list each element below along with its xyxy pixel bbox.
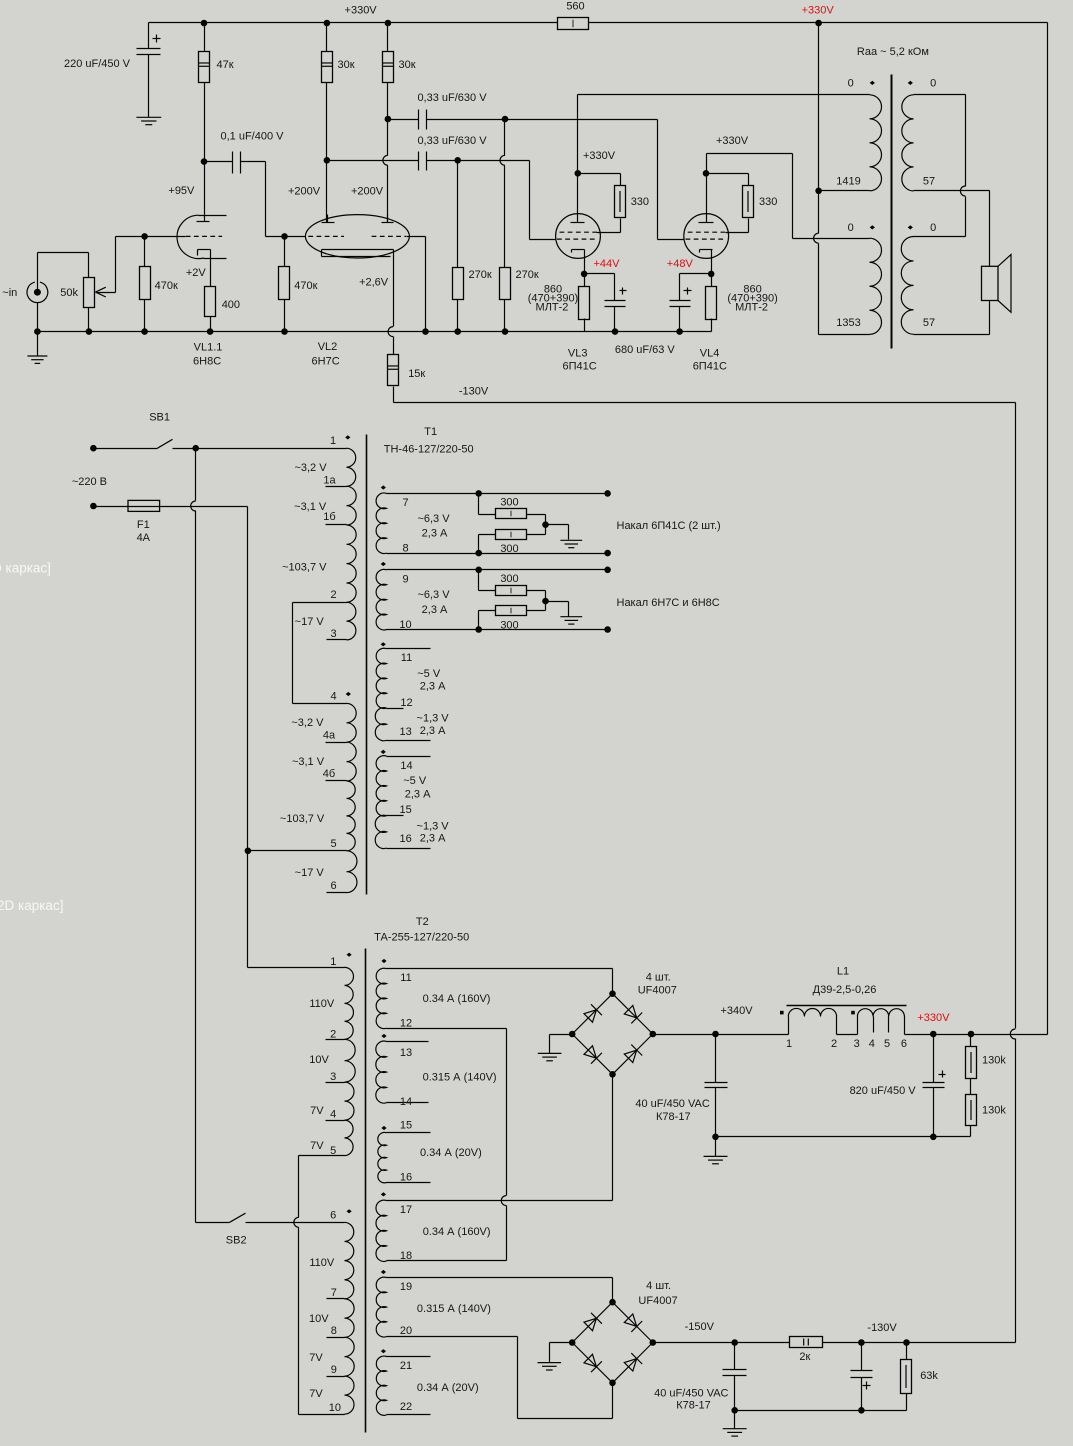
resistor 30k-1 body [322,52,333,83]
label L1 pin 3 [854,1038,860,1050]
svg-text:Т1: Т1 [424,426,437,438]
svg-text:15к: 15к [408,368,425,380]
label 0 (secondary lower) [930,222,936,234]
junction dot VL2 grid / 470k-2 [281,233,288,240]
wire bridge2 minus to ground [550,1343,573,1363]
label Накал 6Н7С и 6Н8С [617,597,720,609]
wire VL2 left anode to 0,33uF-2 [327,160,419,162]
VL3 cathode node dot [581,271,588,278]
label L1 [837,966,849,978]
label 1a [323,474,336,486]
wire PSU2 bottom bus [735,1410,907,1412]
label pin 13 [399,726,411,738]
label +330V after L1 (red) [917,1012,950,1024]
T2 phase dot pin19 [381,1270,386,1274]
svg-text:0.34 А (20V): 0.34 А (20V) [420,1147,482,1159]
wire VL4 anode to OT lower primary [707,154,870,239]
label T2 pin 20 [400,1325,412,1337]
label ~3,2 V (T1-1) [294,462,327,474]
T1 phase dot pin14 [381,750,386,754]
T2 phase dot pin6 [347,1209,352,1213]
label T2 pin 15 [400,1120,412,1132]
junction dot -130V node [858,1339,865,1346]
T1 winding 14-16 coil [375,756,386,849]
T2 lead 20 to bridge2 bottom [387,1337,613,1419]
VL2 grid (dashed) [308,235,406,237]
resistor 860-2 body [706,287,717,320]
ground symbol (220uF cap) [136,117,161,124]
label 220 uF/450 V [64,58,131,70]
svg-text:МЛТ-2: МЛТ-2 [735,302,768,314]
wire PSU1 bottom bus [716,1136,971,1138]
label T2 pin 13 [400,1047,412,1059]
label 2,3 A (13) [420,725,446,737]
svg-text:К78-17: К78-17 [676,1400,711,1412]
capacitor 680uF-1 plates [605,301,626,307]
VL1.1 cathode [198,250,211,287]
T2 lead 5 to lead 10 [294,1156,345,1415]
junction dots on ground bus [34,328,683,335]
svg-text:+2,6V: +2,6V [359,277,389,289]
label L1 pin 6 [901,1038,907,1050]
T1 winding 7-8 coil [376,493,386,554]
label T1 pin 3 [330,628,336,640]
label +48V (red) [667,258,694,270]
diode VD1 D4 (bottom-right edge) [624,1045,642,1063]
transformer T1 core [366,435,368,895]
label 300 upper 7-8 [500,497,518,509]
resistor 300 lower 7-8 [496,530,527,540]
bridge rectifier VD2 diamond [572,1302,653,1383]
svg-text:4 шт.: 4 шт. [646,1280,671,1292]
svg-text:17: 17 [400,1204,412,1216]
svg-text:820 uF/450 V: 820 uF/450 V [850,1085,917,1097]
label 470к (2) [294,280,317,292]
label 63k [920,1370,938,1382]
T1 lead 7-8a (top) [387,493,608,495]
svg-text:2: 2 [330,1029,336,1041]
label UF4007 (VD1) [638,985,677,997]
label pin 8 [402,543,408,555]
junction dot T1 pin5 feed [245,848,252,855]
T1 lead 1a [326,486,347,488]
svg-text:+200V: +200V [288,186,321,198]
wire 860-1 leads [584,274,586,332]
svg-text:560: 560 [566,1,584,13]
label +2,6V [359,277,389,289]
svg-text:VL4: VL4 [700,347,720,359]
label VL2 [318,341,338,353]
wire fuse line [94,506,248,508]
T1 lead 14 [387,756,431,758]
wire 0,33uF-2 to VL3 grid [427,161,556,240]
VL4 anode [699,154,714,223]
svg-text:7V: 7V [310,1140,324,1152]
svg-text:~3,2 V: ~3,2 V [294,462,327,474]
label 7V (T2-3) [309,1352,323,1364]
svg-text:0,33 uF/630 V: 0,33 uF/630 V [417,92,487,104]
ground symbol (PSU1) [704,1137,728,1164]
wire jack to pot top [38,253,89,291]
junction dot 300 mid 7-8 [542,521,549,528]
VL4 anode node dot [703,170,710,177]
label 6Н8С [193,355,221,367]
resistor 560 (top rail) [558,18,589,30]
svg-text:+330V: +330V [345,4,378,16]
wire +330V to OT center tap [818,23,820,191]
label pin 12 [400,697,412,709]
label T2 pin 8 [331,1325,337,1337]
svg-text:VL1.1: VL1.1 [194,342,223,354]
diode VD2 D2 (top-right edge) [624,1314,642,1332]
label К78-17 (1) [656,1111,691,1123]
label 2,3 A 9-10 [422,604,448,616]
junction dot 300 mid 9-10 [542,598,549,605]
VL3 cathode [572,250,585,274]
T1 lead 13 [387,740,431,742]
svg-text:ТА-255-127/220-50: ТА-255-127/220-50 [374,932,469,944]
svg-text:10: 10 [329,1402,341,1414]
label +200V (left) [288,186,321,198]
svg-text:470к: 470к [294,280,317,292]
svg-text:VL2: VL2 [318,341,338,353]
svg-text:10V: 10V [309,1313,329,1325]
wire OT secondary out to speaker [914,191,990,335]
T1 winding 5-6 (17V) [347,851,357,893]
label 7V (T2-1) [310,1105,324,1117]
label T2 pin 5 [330,1145,336,1157]
svg-text:21: 21 [400,1360,412,1372]
svg-text:МЛТ-2: МЛТ-2 [536,302,569,314]
junction dot 820uF top [930,1031,937,1038]
svg-text:7V: 7V [310,1105,324,1117]
resistor 270k-2 body [500,268,511,300]
label T1 pin 1 [330,435,336,447]
label 130k (2) [982,1105,1006,1117]
T1 lead 15 [387,815,404,817]
label 6П41С (VL3) [562,360,596,372]
label ~17 V (T1-2) [295,867,325,879]
svg-text:0.34 А (160V): 0.34 А (160V) [423,993,491,1005]
label 4 шт. (VD1) [646,972,671,984]
svg-text:12: 12 [400,697,412,709]
ground symbol (input) [27,356,47,363]
OT secondary winding upper (57) [902,95,914,191]
capacitor 40uF-1 plates [705,1083,728,1088]
resistor 47k body [199,52,210,83]
label 47к [217,59,234,71]
svg-text:~103,7 V: ~103,7 V [280,813,325,825]
svg-text:SB1: SB1 [149,411,170,423]
svg-text:7: 7 [402,497,408,509]
T2 lead 3 [326,1082,345,1084]
label 0 (primary lower) [848,222,854,234]
svg-text:+330V: +330V [583,150,616,162]
wire -150V line [653,1342,1016,1344]
resistor 2k body [790,1337,823,1348]
label pin 9 [402,574,408,586]
svg-text:2,3 А: 2,3 А [422,528,448,540]
label Raa ~ 5,2 кОм [857,46,929,58]
label +330V at VL4 [716,135,749,147]
choke L1 wires [789,1017,934,1035]
capacitor 40uF-2 plates [723,1370,747,1376]
T2 phase dot pin21 [381,1349,386,1353]
svg-text:270к: 270к [469,269,492,281]
T1 lead 9-10a (top) [387,569,608,571]
label 0,33 uF/630 V (1) [417,92,487,104]
T1 primary winding 1-2 [347,448,357,602]
label ТА-255-127/220-50 [374,932,469,944]
wire 860-2 leads [711,274,713,332]
svg-text:3: 3 [330,1071,336,1083]
T2 lead 15 [387,1132,431,1134]
switch SB1 [94,439,196,448]
input jack circle [27,282,48,302]
polarity + of 680uF-1 [620,288,627,295]
svg-text:+48V: +48V [667,258,694,270]
label T1 pin 2 [330,589,336,601]
svg-text:2: 2 [831,1038,837,1050]
choke L1 winding 3-6 [857,1009,904,1017]
label 7V (T2-2) [310,1140,324,1152]
svg-text:6П41С: 6П41С [562,360,596,372]
junction dot -150V node [731,1339,738,1346]
T1 lead 4a [326,742,347,744]
resistor 300 upper 9-10 [496,586,527,596]
T2 lead 4 [326,1120,345,1122]
VL4 control grid (dashed) [686,238,726,240]
svg-text:300: 300 [500,497,518,509]
svg-text:4б: 4б [323,768,335,780]
T2 winding 17-18 [376,1200,387,1261]
label 2,3 A (11) [420,680,446,692]
wire bridge1 minus to ground [550,1035,573,1054]
svg-text:L1: L1 [837,966,849,978]
svg-text:+330V: +330V [917,1012,950,1024]
label Т2 [416,916,429,928]
junction dots PSU2 bus [731,1407,864,1414]
wire +340V line [653,1034,789,1036]
svg-text:Накал 6П41С (2 шт.): Накал 6П41С (2 шт.) [617,520,721,532]
beam tetrode VL4 envelope [684,214,729,259]
L1 phase dot 3 [851,1011,855,1015]
resistor 63k wires [906,1343,908,1411]
label pin 11 [401,652,412,664]
T1 lead 12 [387,708,404,710]
label 110V (T2-1) [309,998,335,1010]
svg-text:50k: 50k [60,287,78,299]
diode VD1 D2 (top-right edge) [624,1006,642,1024]
junction dot 40uF-1 bottom [712,1134,719,1141]
label 400 value [222,299,240,311]
T1 phase dot pin7 [381,485,386,489]
svg-text:3: 3 [330,628,336,640]
T2 phase dot pin17 [381,1192,386,1196]
node VL1 anode (+95V) dot [201,158,208,165]
label pin 16 [399,833,411,845]
svg-text:20: 20 [400,1325,412,1337]
wire pot bottom to bus [88,308,90,332]
svg-text:22: 22 [400,1401,412,1413]
svg-text:0.315 А (140V): 0.315 А (140V) [423,1072,497,1084]
VL1.1 anode [197,162,210,222]
label 130k (1) [982,1055,1006,1067]
svg-text:0,1 uF/400 V: 0,1 uF/400 V [221,131,285,143]
diode VD2 D1 (left-top edge) [584,1313,602,1331]
VL1.1 grid (dashed) [186,235,222,237]
svg-text:6Н8С: 6Н8С [193,355,221,367]
label ~1,3 V (1) [417,712,450,724]
diode VD2 D3 (left-bottom edge) [584,1354,602,1372]
wire node to 0,1uF cap [205,161,233,163]
junction dots VD2 vertices [569,1299,656,1386]
choke L1 core [787,1005,907,1007]
svg-text:7V: 7V [309,1352,323,1364]
svg-text:4: 4 [330,691,336,703]
T1 phase dot pin1 [345,435,350,439]
speaker [982,255,1012,313]
svg-text:4: 4 [330,1109,336,1121]
label pin 14 [400,760,412,772]
label -130V (bottom) [867,1322,897,1334]
wire -130V right edge down with hop [1010,403,1015,1343]
resistor 130k-1 body [966,1047,977,1079]
label 330 (2) [759,196,777,208]
wire OT secondary 0-0 join with hop [914,95,966,237]
label T2 pin 18 [400,1250,412,1262]
label 270к (2) [516,269,539,281]
wire VL2 right anode to 0,33uF-1 [388,119,419,121]
svg-text:UF4007: UF4007 [638,1295,677,1307]
label 680 uF/63 V [615,344,676,356]
capacitor 680uF-2 plates [670,301,691,307]
junction dot 40uF-1 top [712,1031,719,1038]
bridge rectifier VD1 diamond [572,994,653,1075]
label +200V (right) [351,186,384,198]
junction dot 820uF bottom [930,1134,937,1141]
label -150V [685,1321,715,1333]
label T2 pin 7 [331,1287,337,1299]
wire SB1 down to SB2 with hop [191,449,196,1223]
label К78-17 (2) [676,1400,711,1412]
label 7V (T2-4) [309,1388,323,1400]
label T2 pin 14 [400,1096,412,1108]
label 1353 [836,317,860,329]
transformer T2 core [365,949,367,1433]
label ~103,7 V (T1-2) [280,813,325,825]
svg-text:2D каркас]: 2D каркас] [0,898,63,913]
VL3 control grid (dashed) [557,238,597,240]
svg-text:9: 9 [331,1364,337,1376]
T2 lead 18 [387,1260,507,1262]
svg-text:470к: 470к [155,280,178,292]
label 300 lower 7-8 [500,543,518,555]
label SB2 [226,1235,247,1247]
switch SB2 [196,1213,345,1222]
T2 winding 21-22 [376,1356,386,1415]
junction dot 270k-1 top [454,157,461,164]
label +330V (top right, red) [802,4,835,16]
svg-text:Накал 6Н7С и 6Н8С: Накал 6Н7С и 6Н8С [617,597,720,609]
label Т1 [424,426,437,438]
diode VD1 D1 (left-top edge) [584,1004,602,1022]
svg-text:400: 400 [222,299,240,311]
label T1 pin 6 [330,880,336,892]
svg-text:~17 V: ~17 V [295,867,325,879]
polarity + of 820uF [939,1071,946,1078]
beam tetrode VL3 envelope [556,214,601,259]
label 6Н7С [312,355,340,367]
capacitor 40uF-2 wires [734,1343,736,1411]
svg-text:7: 7 [331,1287,337,1299]
OT secondary winding lower (57) [901,237,913,335]
svg-text:~3,2 V: ~3,2 V [291,717,324,729]
label 1419 [836,176,860,188]
label 57 (lower) [923,317,935,329]
resistor 47k wire [204,23,206,162]
label 0.34 A (160V) (2) [423,1226,491,1238]
svg-text:UF4007: UF4007 [638,985,677,997]
T2 lead 12 [387,1028,507,1030]
svg-text:8: 8 [331,1325,337,1337]
resistor 330-1 body [615,186,626,218]
label 2,3 A (16) [420,832,446,844]
label 0 (primary upper) [848,78,854,90]
T2 lead 22 [387,1414,431,1416]
resistor 30k-1 wire [326,23,328,223]
wire CT to upper primary bottom [819,190,870,192]
svg-text:~1,3 V: ~1,3 V [417,820,450,832]
svg-text:110V: 110V [309,1257,335,1269]
capacitor 40uF-1 wires [715,1035,717,1137]
wire lead12 down to lead18 with hop [501,1029,506,1261]
svg-text:6Н7С: 6Н7С [312,355,340,367]
label 0.34 A (20V) (1) [420,1147,482,1159]
svg-text:~6,3 V: ~6,3 V [417,589,450,601]
svg-text:110V: 110V [309,998,335,1010]
resistor 300 lower 9-10 [496,606,527,616]
svg-text:2,3 А: 2,3 А [422,604,448,616]
T2 lead 7 [327,1298,345,1300]
T1 lead 2 to lead 4 [293,603,347,704]
junction dot 63k top [903,1339,910,1346]
resistor 30k-2 wire with hop [383,23,388,223]
svg-text:Т2: Т2 [416,916,429,928]
wire 0,33uF-1 to VL4 grid [427,120,685,240]
svg-text:1а: 1а [323,474,336,486]
OT core [891,75,893,349]
label L1 pin 4 [869,1038,875,1050]
svg-text:~5 V: ~5 V [403,775,427,787]
svg-text:0.34 А (160V): 0.34 А (160V) [423,1226,491,1238]
label 10V (T2-2) [309,1313,329,1325]
potentiometer 50k body [84,278,95,308]
capacitor 820uF plates [923,1083,945,1088]
label T2 pin 2 [330,1029,336,1041]
label Накал 6П41С (2 шт.) [617,520,721,532]
svg-text:14: 14 [400,760,412,772]
phase dot secondary upper [908,81,913,85]
label 0.34 A (20V) (2) [417,1382,479,1394]
VL4 screen grid (dashed) [688,231,749,233]
label 0.315 A (140V) (2) [417,1303,491,1315]
label 4б [323,768,335,780]
svg-text:5: 5 [330,838,336,850]
svg-text:~1,3 V: ~1,3 V [417,712,450,724]
label 15к [408,368,425,380]
label 2,3 A 7-8 [422,528,448,540]
